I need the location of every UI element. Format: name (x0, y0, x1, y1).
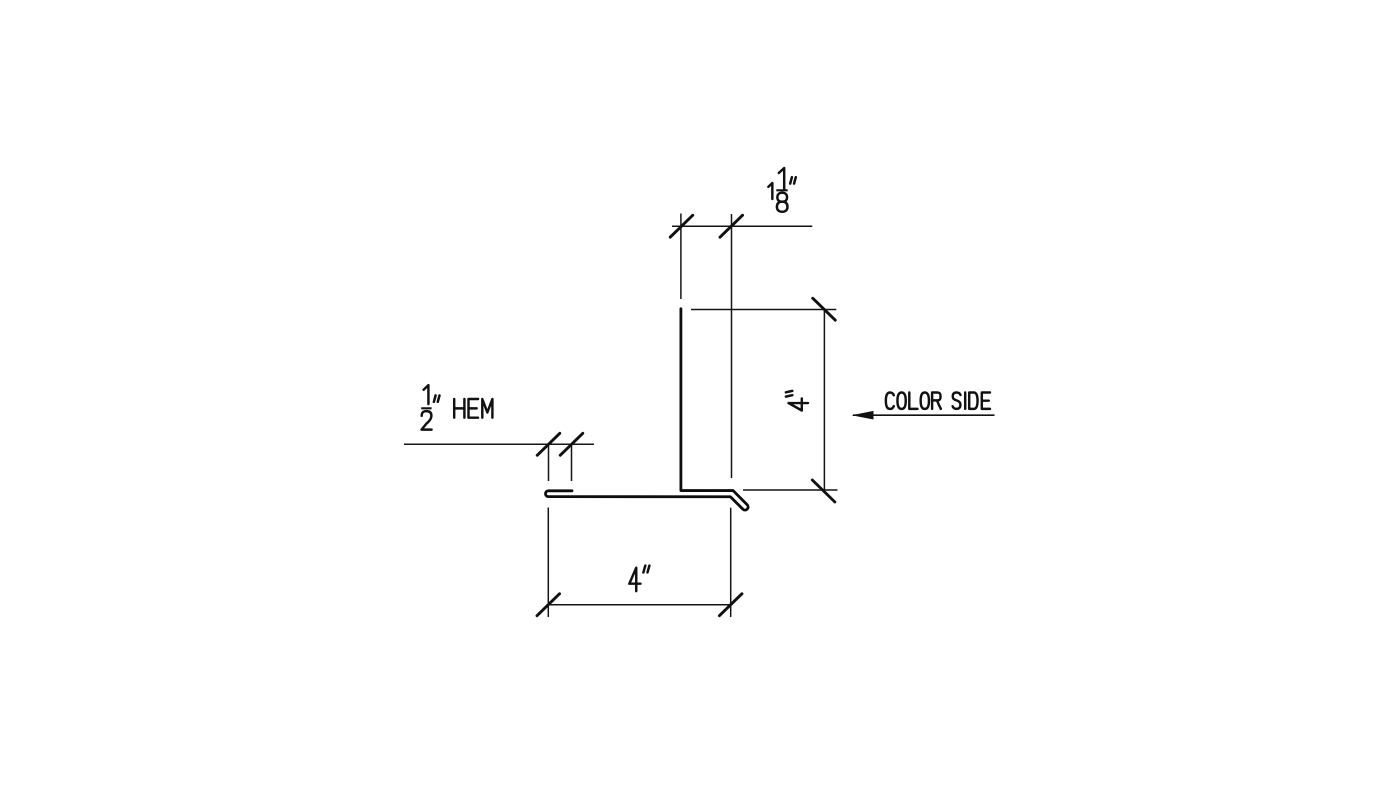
text fraction denominator 8 (top label) (777, 193, 788, 212)
wire extension line right (top dim) (731, 214, 733, 478)
text H (HEM) (454, 399, 464, 418)
wire dimension line 1-1/8in (top) (672, 225, 812, 227)
arrowhead pointing left (852, 411, 874, 420)
text R (COLOR) (932, 393, 941, 409)
text I (SIDE) (964, 393, 966, 409)
fraction bar 1/2 (421, 407, 431, 409)
inch marks (hem label) (434, 395, 440, 401)
text D (SIDE) (969, 393, 977, 409)
wire extension line bottom-left 4in (547, 508, 549, 618)
text M (HEM) (482, 399, 492, 418)
text E (SIDE) (982, 393, 990, 409)
tick hem left (537, 433, 560, 455)
text C (COLOR) (886, 393, 894, 409)
tick right dim top (813, 298, 836, 320)
wire hem extension line right (571, 445, 573, 482)
tick bottom dim right (719, 594, 742, 616)
wire extension line bottom-right 4in (730, 508, 732, 617)
inch marks (bottom dim) (643, 566, 649, 573)
wire arrow shaft COLOR SIDE (853, 414, 995, 416)
text digit 1 (whole, top label) (768, 183, 772, 199)
text digit 4 (bottom dim) (629, 568, 640, 591)
wire dimension line top of right 4in (691, 309, 836, 311)
text fraction denominator 2 (hem label) (422, 411, 432, 430)
wire leader line 1/2in HEM (404, 443, 594, 445)
inch marks (top label) (790, 177, 796, 183)
sheet-metal profile: 4in web, 1-1/8in top kick with open hem drip, 4in flange with 1/2in open hem at left (546, 309, 749, 510)
text L (COLOR) (909, 393, 917, 409)
wire dimension line right 4in vertical (823, 310, 825, 491)
wire extension line left (web top) (680, 214, 682, 300)
text O2 (COLOR) (921, 393, 929, 409)
text fraction numerator 1 (hem label) (424, 385, 429, 404)
tick bottom dim left (537, 594, 560, 616)
wire dimension line bottom of right 4in (743, 489, 838, 491)
text E (HEM) (469, 399, 479, 418)
tick hem right (560, 433, 583, 455)
tick right dim bottom (812, 480, 835, 502)
tick top dim right (720, 215, 743, 237)
wire hem extension line left (548, 445, 550, 482)
text O (COLOR) (897, 393, 905, 409)
text fraction numerator 1 (top label) (779, 168, 784, 189)
text digit 4 rotated (right dim) (789, 399, 808, 411)
wire dimension line bottom 4in (548, 604, 730, 606)
fraction bar 1/8 (776, 189, 787, 191)
inch marks rotated (right dim) (786, 391, 792, 397)
text S (SIDE) (953, 393, 961, 409)
tick top dim left (670, 215, 693, 237)
